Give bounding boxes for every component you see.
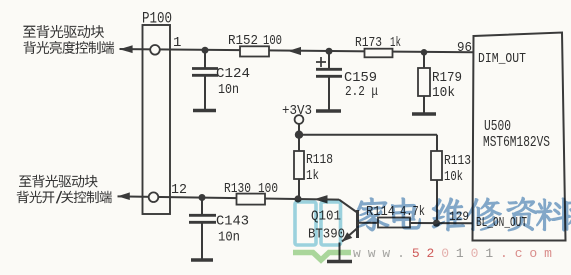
- svg-text:C124: C124: [216, 66, 250, 82]
- svg-text:R118: R118: [306, 152, 333, 168]
- svg-text:129: 129: [449, 209, 469, 224]
- svg-text:R152: R152: [228, 33, 258, 49]
- svg-text:U500: U500: [484, 118, 511, 135]
- svg-text:R130: R130: [224, 181, 251, 197]
- svg-text:R173: R173: [355, 35, 382, 51]
- svg-text:10n: 10n: [218, 82, 239, 98]
- svg-text:1k: 1k: [306, 168, 319, 184]
- svg-text:R113: R113: [444, 153, 471, 169]
- svg-text:96: 96: [457, 40, 472, 56]
- svg-text:P100: P100: [142, 10, 172, 28]
- svg-text:1: 1: [173, 35, 181, 51]
- svg-text:10n: 10n: [218, 230, 240, 246]
- svg-text:www.520101.com: www.520101.com: [353, 246, 559, 261]
- svg-text:10k: 10k: [444, 169, 463, 185]
- svg-text:1k: 1k: [390, 35, 401, 51]
- svg-text:2.2 μ: 2.2 μ: [345, 84, 378, 100]
- svg-text:MST6M182VS: MST6M182VS: [483, 134, 550, 151]
- svg-text:+3V3: +3V3: [282, 103, 312, 119]
- svg-text:DIM_OUT: DIM_OUT: [478, 51, 526, 67]
- svg-text:10k: 10k: [432, 85, 455, 101]
- svg-text:R179: R179: [432, 70, 462, 86]
- svg-text:C143: C143: [216, 214, 249, 230]
- svg-text:12: 12: [171, 182, 187, 198]
- svg-text:100: 100: [258, 181, 278, 197]
- svg-text:100: 100: [263, 33, 282, 49]
